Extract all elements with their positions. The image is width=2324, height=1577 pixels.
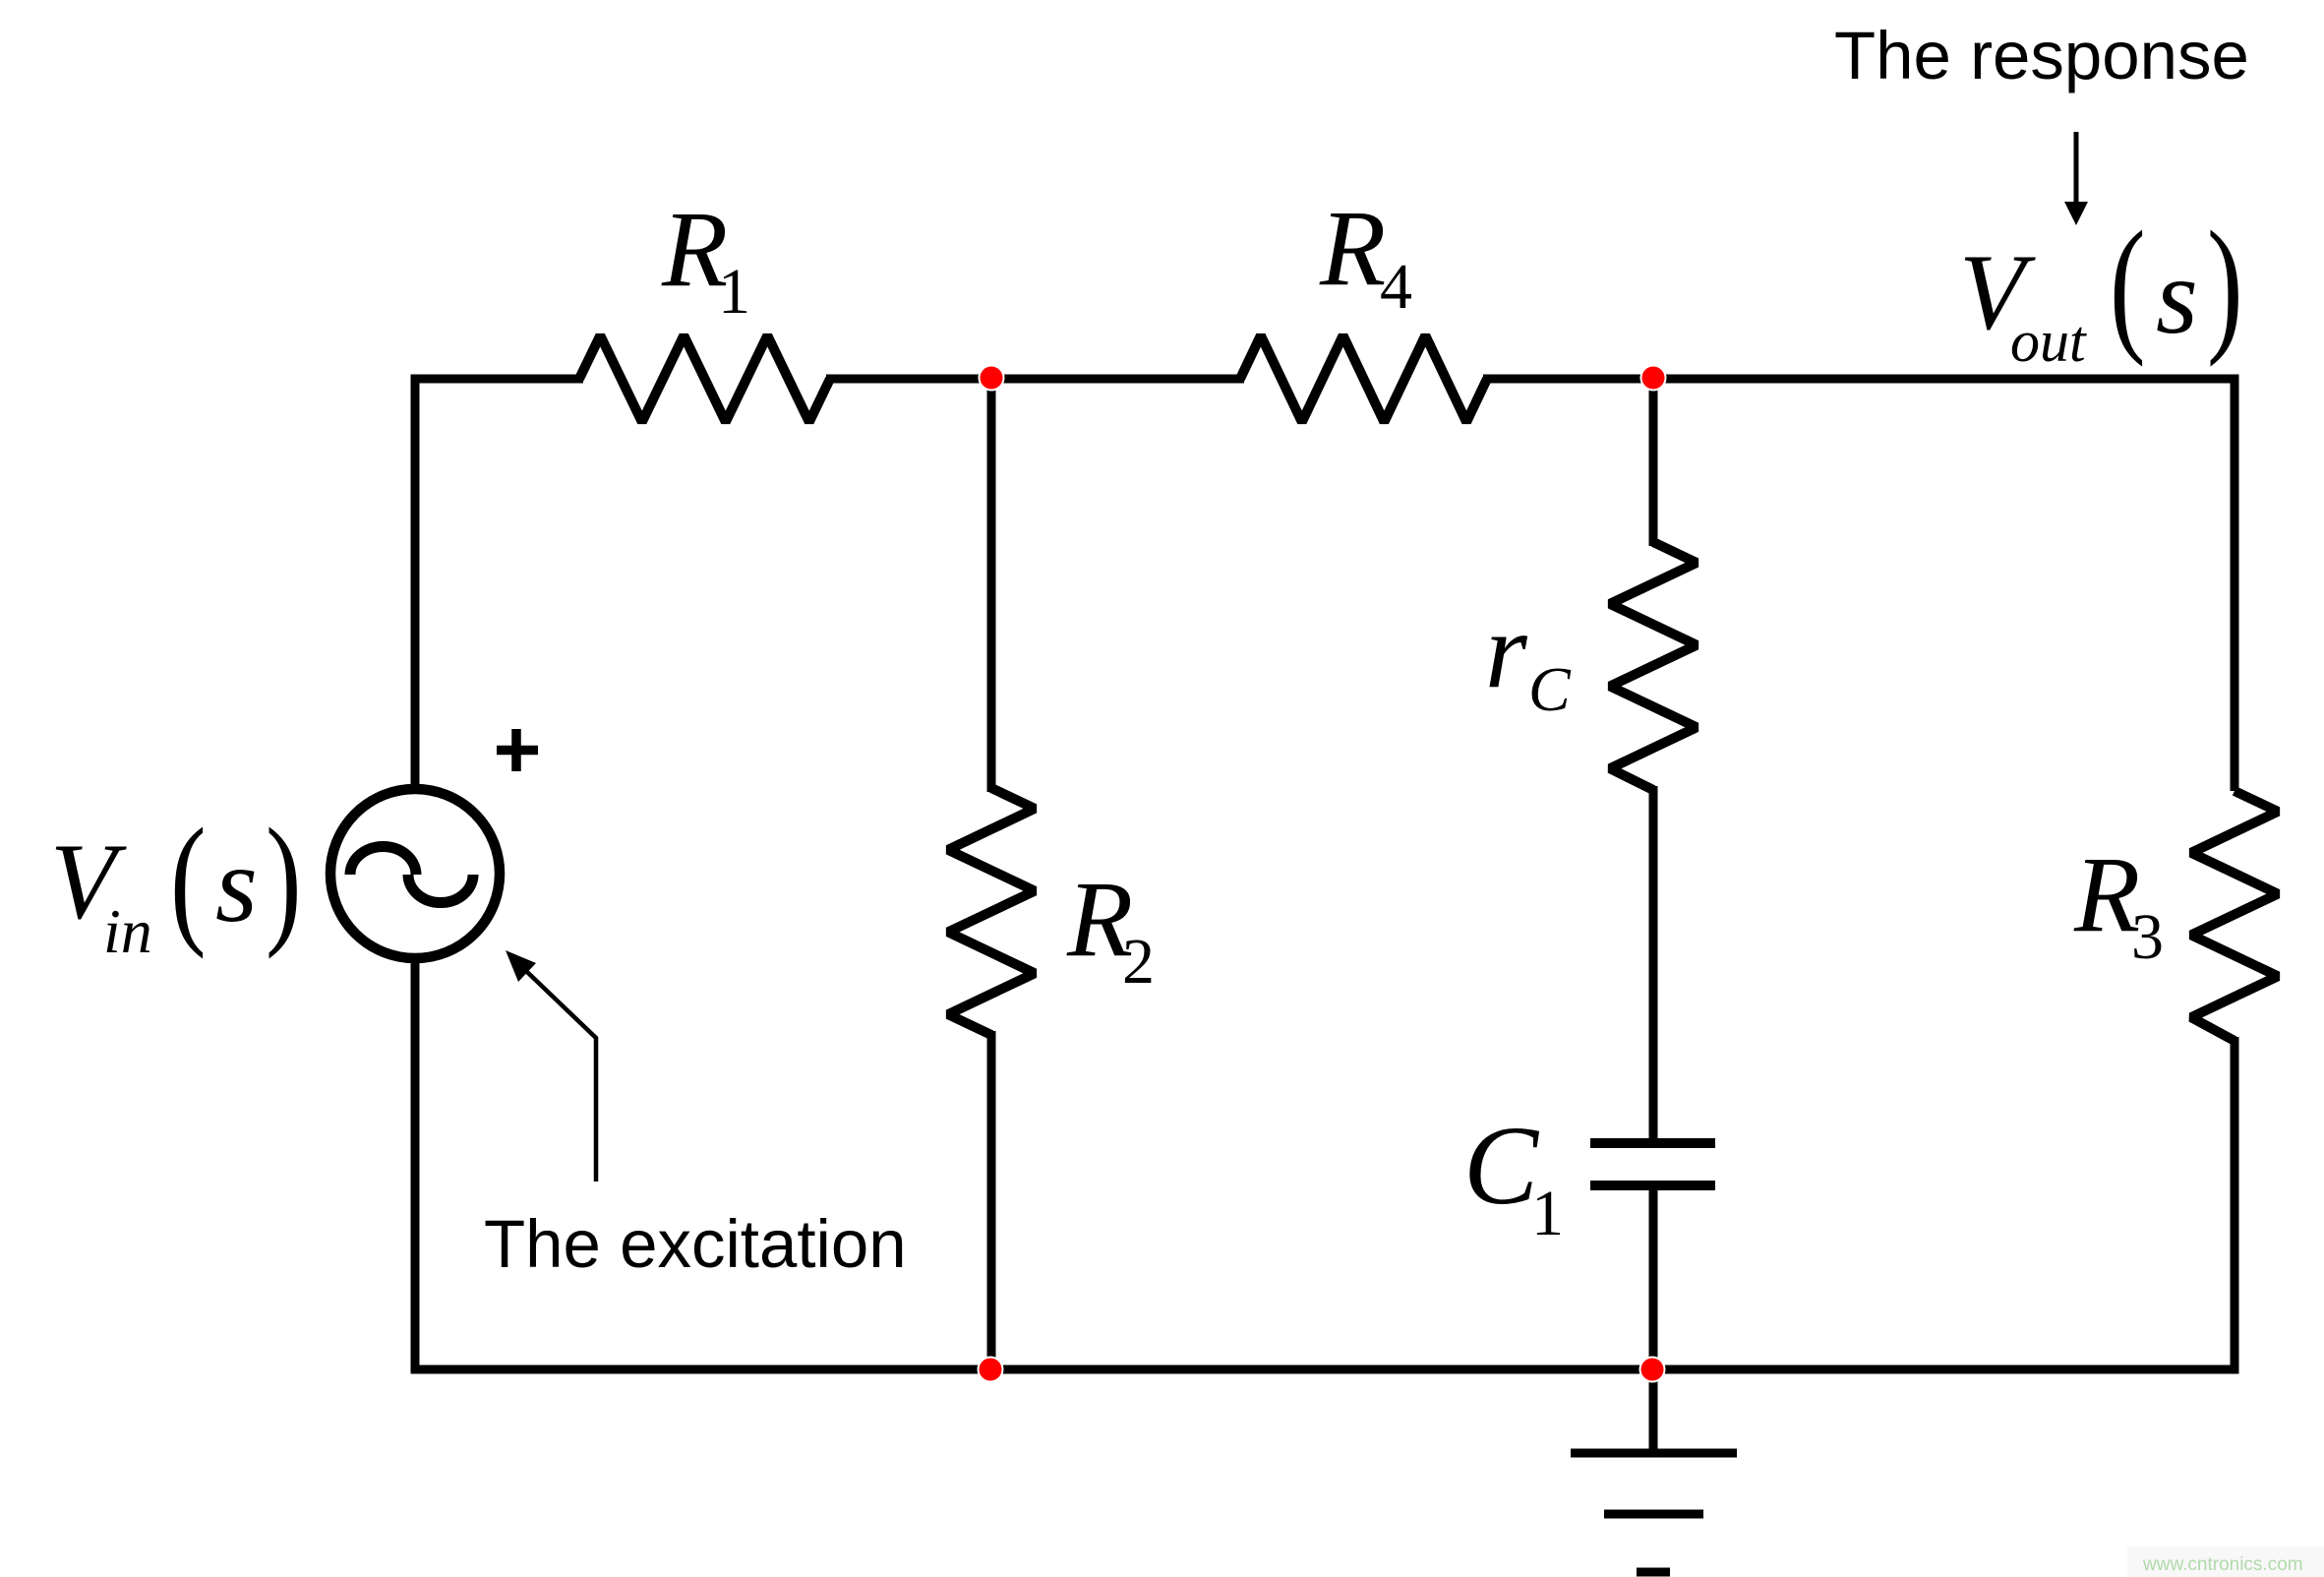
- svg-text:in: in: [103, 896, 152, 966]
- capacitor C1 top plate: [1590, 1138, 1715, 1148]
- wire top middle (node1 to R4): [826, 375, 1244, 384]
- wire R2 branch lower: [987, 1031, 996, 1369]
- resistor rC: [1610, 542, 1697, 790]
- svg-text:s: s: [2156, 236, 2198, 356]
- svg-text:www.cntronics.com: www.cntronics.com: [2142, 1554, 2303, 1575]
- node C (bottom R2 junction): [979, 1358, 1003, 1382]
- ground bar 3: [1637, 1568, 1670, 1577]
- capacitor C1 bottom plate: [1590, 1181, 1715, 1190]
- svg-text:s: s: [215, 824, 258, 944]
- wire rC branch upper: [1649, 379, 1658, 546]
- svg-text:R: R: [2073, 834, 2140, 954]
- ground stem: [1649, 1369, 1658, 1449]
- wire left lower + bottom wire + right wire lower: [415, 958, 2235, 1369]
- svg-text:The response: The response: [1834, 18, 2249, 93]
- ground bar 1: [1571, 1449, 1737, 1458]
- svg-text:(: (: [2110, 200, 2146, 367]
- svg-text:C: C: [1463, 1103, 1540, 1228]
- resistor R4: [1240, 335, 1487, 422]
- svg-text:1: 1: [718, 256, 750, 328]
- svg-text:): ): [2207, 200, 2243, 367]
- svg-text:4: 4: [1380, 251, 1412, 323]
- svg-text:r: r: [1485, 590, 1528, 710]
- wire R2 branch upper: [987, 379, 996, 792]
- svg-text:C: C: [1528, 654, 1572, 724]
- node B (R4/rC/Vout junction): [1641, 366, 1666, 391]
- svg-text:1: 1: [1531, 1178, 1564, 1249]
- wire capacitor to bottom: [1649, 1190, 1658, 1369]
- response arrow: [2074, 132, 2079, 204]
- svg-text:out: out: [2010, 309, 2087, 374]
- resistor R3: [2191, 791, 2278, 1041]
- excitation pointer arrowhead: [506, 950, 536, 982]
- sine symbol inside source: [350, 847, 473, 903]
- svg-text:3: 3: [2131, 901, 2164, 973]
- svg-text:(: (: [170, 800, 207, 960]
- excitation pointer line: [527, 972, 596, 1182]
- ground bar 2: [1604, 1510, 1703, 1519]
- svg-text:2: 2: [1122, 926, 1155, 998]
- svg-text:The excitation: The excitation: [484, 1206, 907, 1282]
- svg-text:R: R: [1319, 188, 1386, 308]
- svg-text:): ): [266, 800, 302, 960]
- wire top-left corner + left wire upper: [415, 379, 583, 790]
- resistor R1: [579, 335, 830, 422]
- voltage source Vin circle: [330, 789, 500, 958]
- resistor R2: [948, 788, 1035, 1035]
- watermark background: [2127, 1547, 2324, 1577]
- wire top right + right wire upper: [1483, 379, 2235, 791]
- node D (bottom ground junction): [1640, 1358, 1665, 1382]
- plus sign polarity: [497, 729, 538, 771]
- node A (R1/R4/R2 junction): [980, 366, 1004, 391]
- wire rC to capacitor: [1649, 786, 1658, 1138]
